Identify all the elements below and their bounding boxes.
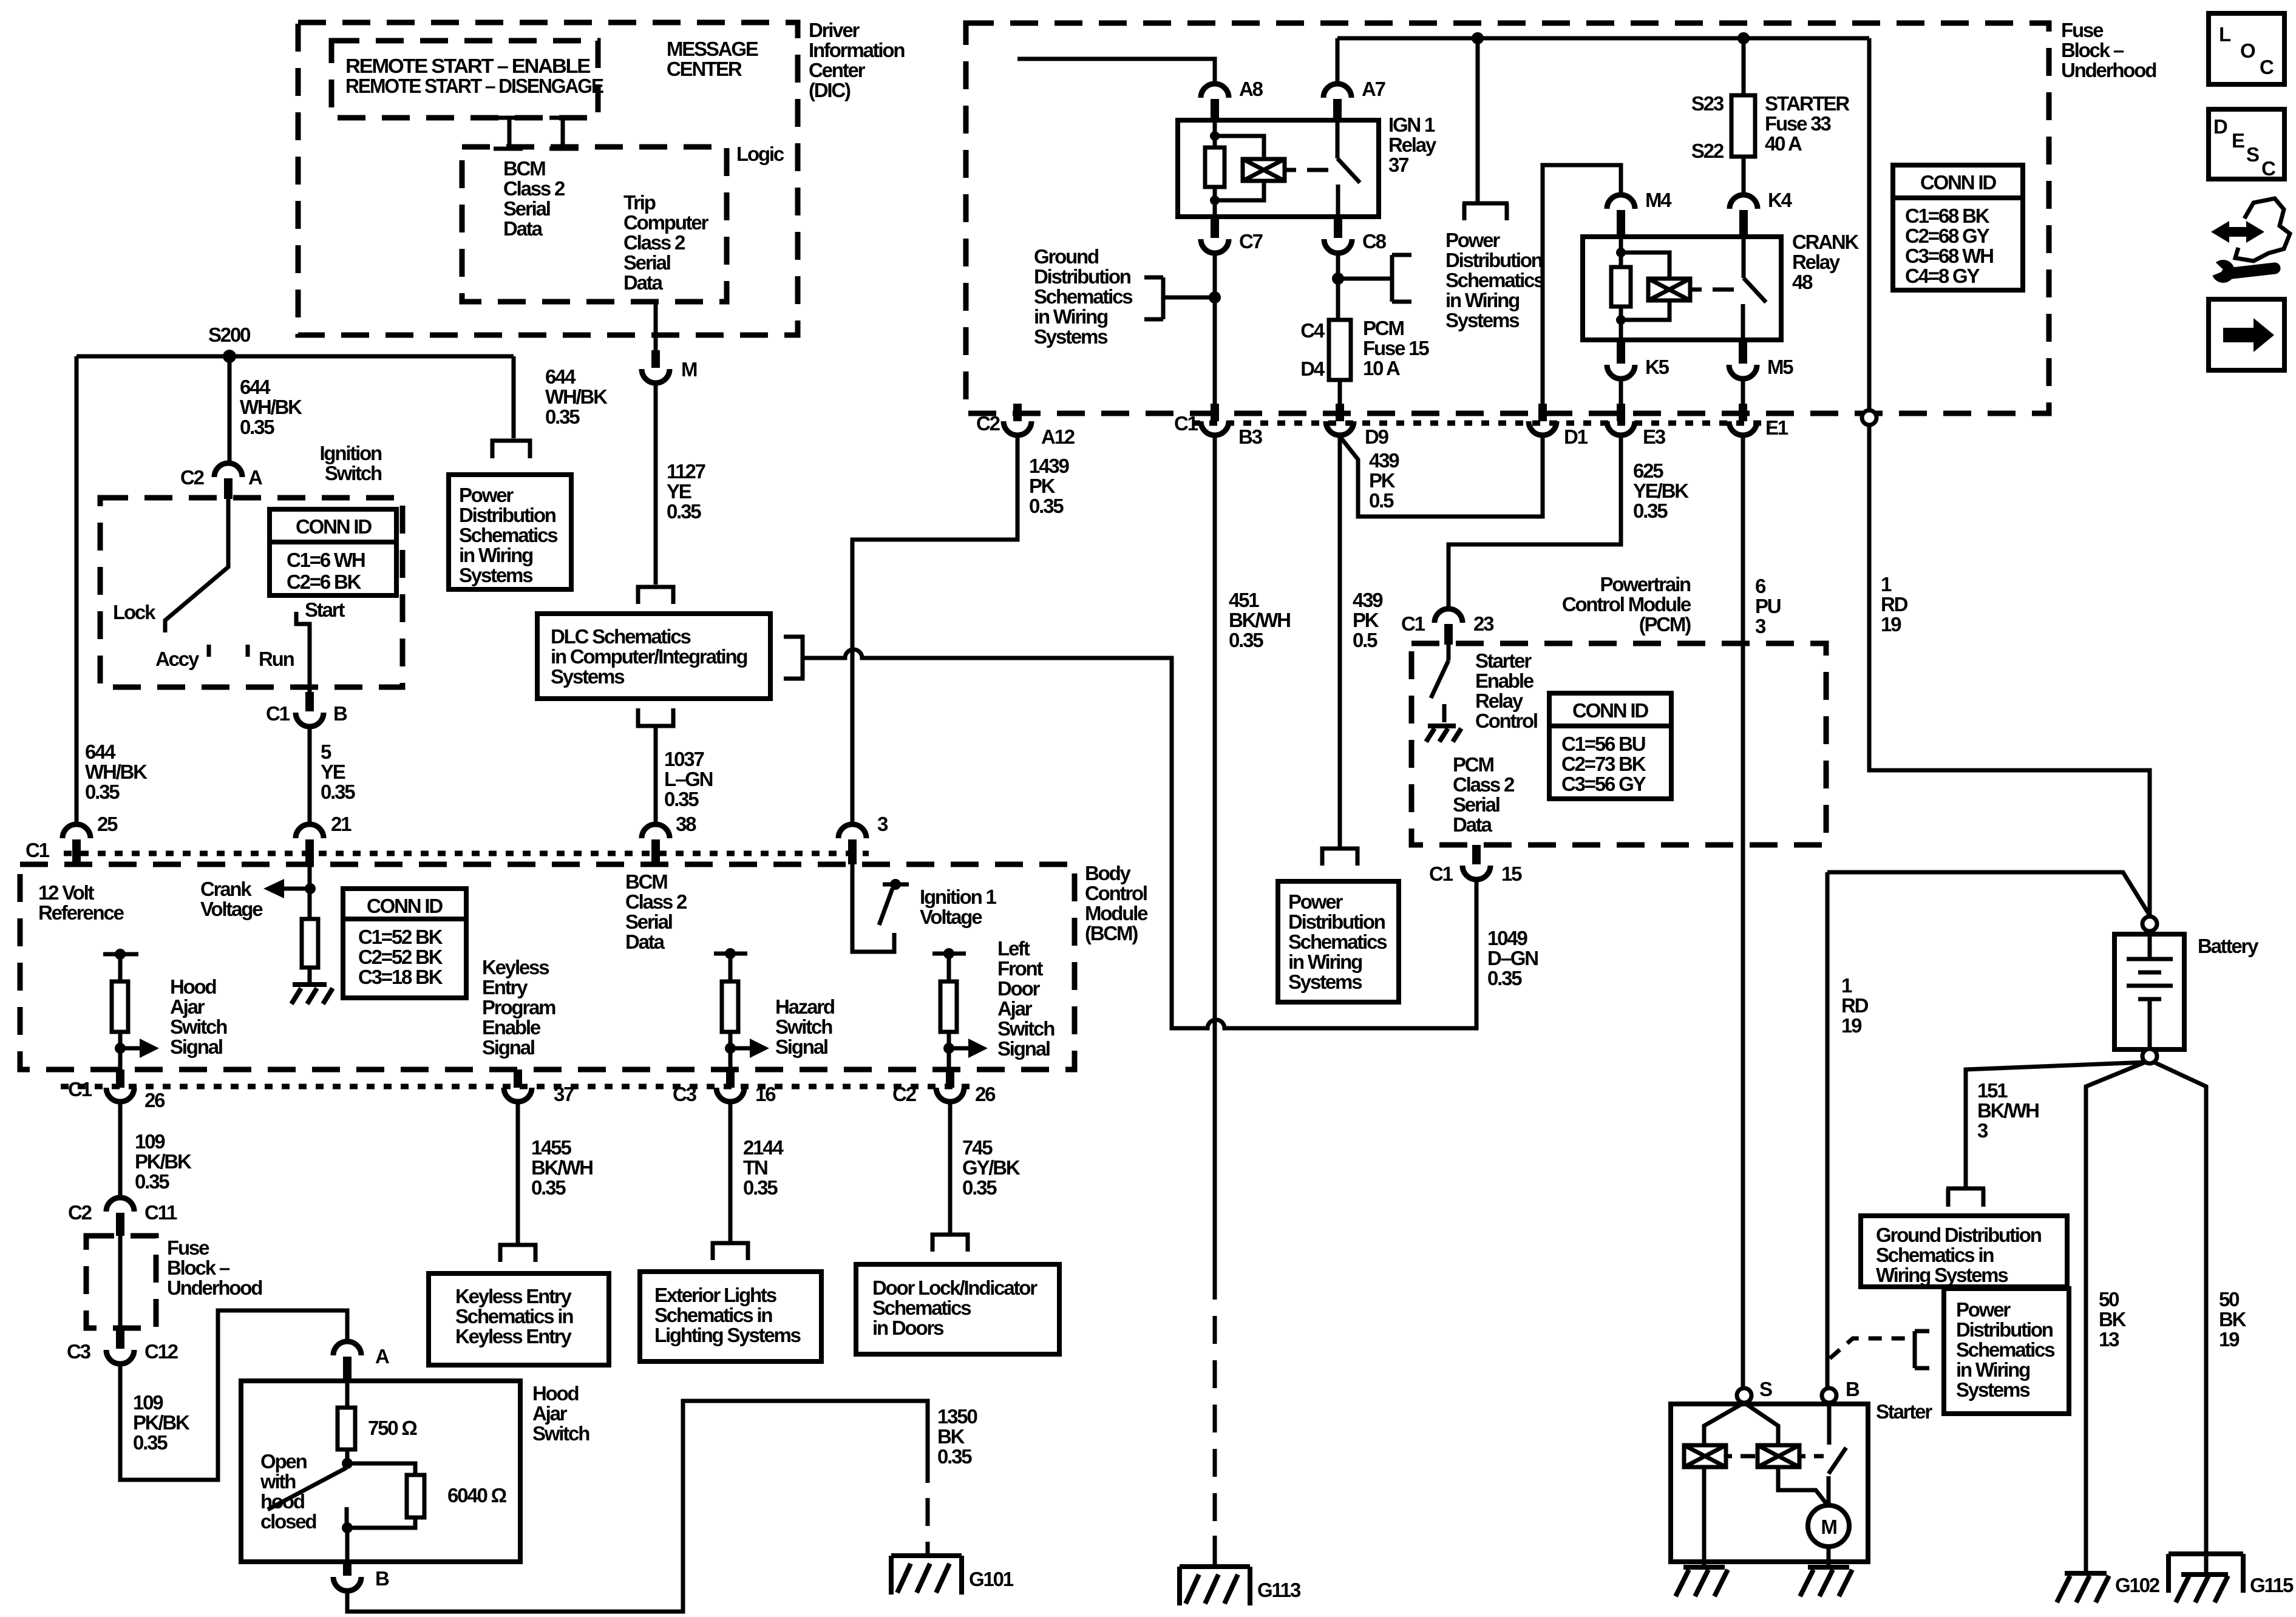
battery cell plates bbox=[2127, 934, 2173, 1049]
ground G113 bbox=[1180, 1567, 1250, 1605]
svg-text:with: with bbox=[260, 1470, 296, 1493]
wire: 1350 BK staircase to G101 bbox=[347, 1401, 928, 1612]
svg-text:Schematics: Schematics bbox=[1288, 931, 1387, 953]
svg-text:439: 439 bbox=[1353, 589, 1383, 611]
svg-text:C7: C7 bbox=[1239, 230, 1263, 253]
svg-text:PU: PU bbox=[1755, 595, 1781, 617]
switch: CRANK relay contacts bbox=[1743, 237, 1766, 340]
conn id box: fuse block bbox=[1893, 165, 2023, 290]
svg-text:Ajar: Ajar bbox=[997, 997, 1033, 1020]
svg-text:Switch: Switch bbox=[532, 1422, 589, 1445]
svg-text:Keyless: Keyless bbox=[482, 956, 549, 978]
solenoid coil 1 bbox=[1684, 1445, 1726, 1467]
svg-text:C3=68 WH: C3=68 WH bbox=[1905, 245, 1993, 267]
svg-text:K4: K4 bbox=[1768, 189, 1793, 211]
svg-text:C1=56 BU: C1=56 BU bbox=[1561, 733, 1645, 755]
svg-text:Fuse: Fuse bbox=[2061, 19, 2104, 41]
svg-text:E1: E1 bbox=[1765, 416, 1788, 439]
svg-text:S22: S22 bbox=[1691, 140, 1724, 162]
bracket: into DLC box top bbox=[638, 587, 673, 604]
svg-text:Schematics in: Schematics in bbox=[455, 1305, 573, 1327]
svg-text:Control Module: Control Module bbox=[1562, 593, 1691, 615]
svg-text:BK/WH: BK/WH bbox=[531, 1156, 593, 1179]
svg-text:BK/WH: BK/WH bbox=[1229, 609, 1290, 631]
resistor: hazard internal bbox=[722, 981, 738, 1032]
svg-text:644: 644 bbox=[85, 741, 116, 763]
ref box: Power Distribution Schematics in Wiring Systems (mid) bbox=[1278, 881, 1399, 1002]
svg-text:0.35: 0.35 bbox=[135, 1170, 169, 1193]
ref box: Exterior Lights Schematics in Lighting Systems bbox=[640, 1272, 821, 1361]
svg-text:Systems: Systems bbox=[459, 564, 532, 586]
svg-text:Ignition: Ignition bbox=[319, 442, 382, 464]
svg-text:745: 745 bbox=[962, 1136, 993, 1159]
svg-text:Center: Center bbox=[809, 59, 866, 81]
svg-text:Schematics in: Schematics in bbox=[654, 1304, 772, 1326]
svg-text:Ajar: Ajar bbox=[532, 1402, 568, 1425]
svg-text:Trip: Trip bbox=[623, 191, 656, 214]
wire: 1127 YE from Trip Computer to M bbox=[654, 302, 658, 350]
svg-text:Starter: Starter bbox=[1475, 649, 1532, 672]
svg-text:Systems: Systems bbox=[1956, 1378, 2029, 1401]
svg-text:C1: C1 bbox=[1174, 412, 1198, 435]
svg-text:C2=52 BK: C2=52 BK bbox=[358, 946, 443, 968]
connector C2 C11 bbox=[106, 1198, 134, 1212]
svg-text:Class 2: Class 2 bbox=[1453, 773, 1515, 796]
svg-text:Battery: Battery bbox=[2198, 935, 2259, 957]
svg-text:21: 21 bbox=[331, 813, 352, 835]
connector C3 C12 bbox=[116, 1329, 124, 1349]
connector C3 16 (hazard) bbox=[726, 1070, 735, 1088]
motor M bbox=[1808, 1505, 1849, 1547]
svg-text:Enable: Enable bbox=[482, 1016, 541, 1039]
wire: 625 YE/BK from E3 to PCM C1/23 bbox=[1449, 436, 1621, 609]
svg-text:Serial: Serial bbox=[1453, 793, 1500, 816]
battery positive terminal bbox=[2142, 917, 2157, 931]
wire: 5 YE down to BCM 21 bbox=[308, 727, 312, 825]
ground: PCM internal mini bbox=[1426, 726, 1461, 742]
arrow: hazard switch signal bbox=[730, 1046, 755, 1051]
relay box: IGN 1 Relay 37 bbox=[1178, 120, 1379, 217]
resistor: crank voltage pull bbox=[302, 919, 318, 968]
coil 2 to motor wire bbox=[1778, 1467, 1827, 1504]
component box: Battery bbox=[2114, 934, 2184, 1049]
svg-text:BK: BK bbox=[937, 1425, 965, 1448]
svg-text:C2=68 GY: C2=68 GY bbox=[1905, 225, 1990, 247]
svg-text:Voltage: Voltage bbox=[920, 906, 982, 928]
wire: ignition switch rotor bbox=[165, 499, 228, 632]
svg-text:in Computer/Integrating: in Computer/Integrating bbox=[551, 645, 747, 668]
svg-text:0.35: 0.35 bbox=[1229, 629, 1263, 651]
connector C1 15 bbox=[1472, 845, 1481, 864]
svg-text:BCM: BCM bbox=[503, 157, 545, 180]
wire: 151 BK/WH from battery negative bbox=[1966, 1062, 2145, 1188]
switch blade: open with hood closed bbox=[268, 1468, 347, 1510]
svg-text:0.35: 0.35 bbox=[545, 405, 580, 428]
svg-text:Signal: Signal bbox=[997, 1037, 1050, 1060]
svg-text:A12: A12 bbox=[1041, 425, 1075, 448]
svg-text:C12: C12 bbox=[144, 1340, 178, 1363]
svg-text:0.5: 0.5 bbox=[1369, 489, 1394, 512]
svg-text:Power: Power bbox=[1288, 890, 1343, 913]
ground: starter solenoid bbox=[1676, 1567, 1728, 1596]
bracket: into Power Distribution box (439 PK) bbox=[1322, 849, 1357, 866]
connector D9 bbox=[1336, 404, 1344, 421]
svg-text:15: 15 bbox=[1501, 863, 1522, 885]
svg-text:Data: Data bbox=[623, 271, 664, 294]
svg-text:CRANK: CRANK bbox=[1792, 231, 1860, 253]
svg-text:Program: Program bbox=[482, 996, 555, 1019]
svg-text:in Doors: in Doors bbox=[872, 1317, 943, 1339]
svg-text:in Wiring: in Wiring bbox=[1288, 951, 1362, 973]
contact: Start bbox=[296, 612, 310, 692]
svg-text:Fuse 33: Fuse 33 bbox=[1765, 112, 1831, 135]
svg-text:0.35: 0.35 bbox=[962, 1176, 997, 1199]
wire: 451 dashed section to G113 bbox=[1213, 1272, 1217, 1536]
svg-text:B: B bbox=[333, 702, 347, 725]
dashed actuator link CRANK bbox=[1690, 288, 1734, 292]
svg-text:38: 38 bbox=[676, 813, 696, 835]
arrow: crank voltage (points left) bbox=[280, 887, 310, 891]
svg-text:Entry: Entry bbox=[482, 976, 528, 998]
svg-text:C2=6 BK: C2=6 BK bbox=[287, 571, 362, 593]
connector D1 bbox=[1538, 404, 1547, 421]
bracket: into Ground Distribution box bbox=[1946, 1188, 1985, 1207]
bracket: DLC box bottom bbox=[638, 708, 673, 726]
svg-text:Data: Data bbox=[503, 217, 543, 240]
node S200 bbox=[223, 350, 236, 363]
svg-text:Schematics in: Schematics in bbox=[1876, 1244, 1994, 1266]
svg-text:WH/BK: WH/BK bbox=[85, 761, 148, 783]
svg-text:RD: RD bbox=[1841, 994, 1869, 1017]
svg-text:Lock: Lock bbox=[113, 601, 156, 623]
svg-text:Open: Open bbox=[260, 1450, 307, 1473]
svg-text:0.35: 0.35 bbox=[1029, 495, 1064, 517]
svg-text:PK: PK bbox=[1029, 475, 1056, 497]
svg-text:Reference: Reference bbox=[38, 901, 124, 924]
svg-text:Serial: Serial bbox=[623, 251, 670, 274]
wire: 2144 TN down bbox=[729, 1103, 733, 1242]
wire: message center to logic connector left bbox=[508, 117, 512, 150]
svg-text:WH/BK: WH/BK bbox=[545, 385, 608, 408]
svg-text:750 Ω: 750 Ω bbox=[368, 1417, 417, 1439]
svg-text:0.35: 0.35 bbox=[743, 1176, 778, 1199]
svg-text:C2: C2 bbox=[892, 1083, 917, 1105]
svg-text:23: 23 bbox=[1473, 612, 1494, 635]
svg-text:O: O bbox=[2240, 39, 2255, 62]
svg-text:D: D bbox=[2213, 115, 2227, 138]
svg-text:Control: Control bbox=[1085, 882, 1147, 904]
svg-text:0.35: 0.35 bbox=[133, 1431, 168, 1454]
module box: Ignition Switch dashed bbox=[100, 498, 402, 687]
svg-text:Block –: Block – bbox=[2061, 39, 2124, 61]
svg-text:Serial: Serial bbox=[503, 197, 550, 220]
svg-text:CENTER: CENTER bbox=[667, 58, 742, 80]
svg-text:Front: Front bbox=[997, 957, 1044, 980]
coil: CRANK relay winding bbox=[1648, 279, 1690, 300]
svg-text:K5: K5 bbox=[1645, 356, 1669, 378]
svg-text:0.35: 0.35 bbox=[321, 781, 355, 803]
svg-text:C1=52 BK: C1=52 BK bbox=[358, 926, 443, 948]
resistor 750 ohm bbox=[345, 1382, 350, 1408]
svg-text:G115: G115 bbox=[2250, 1574, 2294, 1596]
module box: MESSAGE CENTER dashed bbox=[331, 41, 598, 118]
connector A7 bbox=[1323, 84, 1351, 98]
grommet circle at fuse block boundary bbox=[1862, 410, 1877, 425]
wire: fuse to K4 bbox=[1742, 157, 1746, 195]
svg-text:in Wiring: in Wiring bbox=[1034, 305, 1107, 328]
svg-text:S: S bbox=[1759, 1378, 1772, 1400]
svg-text:C8: C8 bbox=[1362, 230, 1387, 253]
svg-text:Driver: Driver bbox=[809, 19, 860, 41]
svg-text:in Wiring: in Wiring bbox=[1956, 1358, 2029, 1381]
svg-text:Signal: Signal bbox=[170, 1036, 222, 1058]
wire: 1037 L-GN down to BCM 38 bbox=[654, 726, 658, 825]
wire: 1 RD 19 lower branch bbox=[1827, 872, 2150, 915]
svg-text:1455: 1455 bbox=[531, 1136, 571, 1159]
svg-text:109: 109 bbox=[133, 1391, 163, 1414]
svg-text:C1: C1 bbox=[25, 839, 50, 861]
connector K4 bbox=[1730, 195, 1758, 209]
dashed actuator link starter bbox=[1726, 1454, 1824, 1459]
connector E3 bbox=[1617, 404, 1625, 421]
svg-text:Signal: Signal bbox=[482, 1036, 534, 1059]
wire: 109 PK/BK down bbox=[118, 1103, 123, 1196]
svg-text:CONN ID: CONN ID bbox=[1572, 699, 1648, 722]
svg-text:Hazard: Hazard bbox=[775, 995, 834, 1018]
svg-text:1037: 1037 bbox=[664, 748, 704, 770]
module box: Fuse Block - Underhood small dashed bbox=[86, 1236, 156, 1328]
wire: K5 to E3 bbox=[1619, 379, 1623, 404]
ref box: Ground Distribution Schematics in Wiring Systems bbox=[1861, 1216, 2067, 1287]
connector E1 bbox=[1739, 404, 1747, 421]
svg-text:C: C bbox=[2260, 56, 2274, 78]
wire+bracket: power distribution reference (C8) bbox=[1338, 255, 1411, 302]
svg-text:Distribution: Distribution bbox=[459, 504, 556, 526]
wire: battery feed bus bbox=[1337, 36, 1869, 41]
bracket: power distribution reference bbox=[492, 441, 530, 458]
ground: BCM internal bbox=[291, 985, 333, 1004]
svg-text:0.35: 0.35 bbox=[85, 781, 120, 803]
connector C1 23 bbox=[1435, 609, 1462, 623]
svg-text:CONN ID: CONN ID bbox=[1920, 171, 1996, 194]
svg-text:1439: 1439 bbox=[1029, 455, 1069, 477]
svg-text:Fuse 15: Fuse 15 bbox=[1363, 337, 1429, 359]
ref box: Door Lock/Indicator Schematics in Doors bbox=[856, 1264, 1059, 1354]
svg-text:Run: Run bbox=[259, 648, 294, 670]
coil: IGN1 relay winding bbox=[1243, 159, 1285, 181]
svg-text:YE: YE bbox=[321, 761, 345, 783]
svg-text:C2: C2 bbox=[68, 1201, 92, 1224]
svg-text:1350: 1350 bbox=[937, 1405, 977, 1428]
svg-text:Door: Door bbox=[997, 977, 1041, 1000]
svg-text:BK: BK bbox=[2219, 1308, 2247, 1331]
svg-text:Switch: Switch bbox=[170, 1015, 227, 1038]
wire: C8 down bbox=[1336, 254, 1340, 320]
svg-text:19: 19 bbox=[1841, 1014, 1862, 1037]
svg-text:C: C bbox=[2261, 157, 2275, 180]
svg-text:0.5: 0.5 bbox=[1353, 629, 1377, 651]
svg-text:in Wiring: in Wiring bbox=[1445, 289, 1519, 311]
svg-text:Left: Left bbox=[997, 937, 1030, 960]
svg-text:3: 3 bbox=[1977, 1119, 1988, 1142]
svg-text:451: 451 bbox=[1229, 589, 1259, 611]
wire: S200 down to ignition switch C2/A bbox=[228, 356, 232, 463]
svg-text:M: M bbox=[1821, 1516, 1836, 1538]
wire+bracket: power distribution drop from bus bbox=[1462, 38, 1509, 220]
switch: Ignition 1 Voltage bbox=[852, 864, 894, 952]
svg-text:G113: G113 bbox=[1257, 1579, 1301, 1601]
coil 1 to ground bbox=[1702, 1467, 1707, 1567]
resistor: left front door internal bbox=[940, 981, 957, 1032]
relay coil branch wiring bbox=[1213, 120, 1217, 217]
svg-text:Relay: Relay bbox=[1792, 251, 1841, 273]
svg-text:C11: C11 bbox=[144, 1201, 177, 1224]
icon box: DESC bbox=[2209, 109, 2284, 179]
svg-text:Control: Control bbox=[1475, 710, 1537, 732]
svg-text:G102: G102 bbox=[2115, 1574, 2160, 1596]
module box: Fuse Block - Underhood dashed bbox=[966, 23, 2049, 413]
svg-text:M: M bbox=[681, 358, 697, 381]
bracket: into Keyless Entry box bbox=[500, 1245, 535, 1262]
component box: Starter bbox=[1671, 1404, 1868, 1562]
wire: hood ajar internal with junction bar bbox=[103, 954, 138, 981]
svg-text:C3=56 GY: C3=56 GY bbox=[1561, 773, 1646, 795]
svg-text:M5: M5 bbox=[1767, 356, 1793, 378]
svg-text:PK/BK: PK/BK bbox=[133, 1411, 190, 1434]
terminal B bbox=[1822, 1388, 1836, 1403]
ground G102 bbox=[2057, 1573, 2109, 1602]
svg-text:C1=6 WH: C1=6 WH bbox=[287, 549, 365, 571]
connector A (hood ajar switch) bbox=[333, 1341, 361, 1355]
wire: 451 BK/WH from B3 down bbox=[1213, 436, 1217, 1272]
svg-text:B: B bbox=[375, 1567, 389, 1590]
svg-text:BCM: BCM bbox=[625, 870, 667, 893]
svg-text:C1=68 BK: C1=68 BK bbox=[1905, 205, 1990, 227]
svg-text:Exterior Lights: Exterior Lights bbox=[654, 1284, 776, 1306]
svg-text:DLC Schematics: DLC Schematics bbox=[551, 625, 690, 648]
svg-text:37: 37 bbox=[554, 1083, 574, 1105]
wire: 50 BK 19 from battery negative bbox=[2153, 1062, 2206, 1575]
wire: 644 right branch down to power dist bracket bbox=[512, 356, 516, 438]
svg-text:Data: Data bbox=[625, 931, 665, 953]
dotted connector line BCM bottom bbox=[61, 1084, 977, 1090]
svg-text:Keyless Entry: Keyless Entry bbox=[455, 1325, 572, 1347]
svg-text:25: 25 bbox=[97, 813, 118, 835]
svg-text:Systems: Systems bbox=[1034, 325, 1107, 348]
switch: starter enable relay control bbox=[1431, 645, 1449, 722]
svg-text:Distribution: Distribution bbox=[1288, 910, 1385, 933]
svg-text:Wiring Systems: Wiring Systems bbox=[1876, 1264, 2008, 1286]
svg-text:13: 13 bbox=[2099, 1328, 2119, 1351]
svg-text:L: L bbox=[2219, 23, 2231, 46]
svg-text:Logic: Logic bbox=[736, 143, 784, 165]
ref box: DLC Schematics in Computer/Integrating Systems bbox=[537, 614, 770, 699]
svg-text:50: 50 bbox=[2219, 1288, 2239, 1310]
connector C2 26 (left front door) bbox=[946, 1070, 954, 1088]
svg-text:C3=18 BK: C3=18 BK bbox=[358, 966, 443, 988]
wire: 439 PK from D9 diagonal to D1 bbox=[1340, 436, 1543, 517]
svg-text:Signal: Signal bbox=[775, 1036, 827, 1058]
wire: message center to logic connector right bbox=[561, 117, 565, 150]
svg-text:Door Lock/Indicator: Door Lock/Indicator bbox=[872, 1276, 1038, 1299]
connector C1 B3 bbox=[1211, 404, 1219, 421]
wire: S200 horizontal bus 644 WH/BK bbox=[76, 354, 514, 359]
svg-text:644: 644 bbox=[240, 376, 271, 398]
svg-text:Start: Start bbox=[305, 598, 345, 621]
svg-text:GY/BK: GY/BK bbox=[962, 1156, 1021, 1179]
svg-text:109: 109 bbox=[135, 1130, 165, 1153]
arrow: left front door ajar switch signal bbox=[949, 1046, 973, 1051]
svg-text:2144: 2144 bbox=[743, 1136, 784, 1159]
svg-text:Starter: Starter bbox=[1876, 1400, 1932, 1423]
svg-text:C1: C1 bbox=[1429, 863, 1453, 885]
svg-text:Distribution: Distribution bbox=[1034, 265, 1131, 288]
svg-text:Class 2: Class 2 bbox=[623, 231, 685, 254]
conn id box: BCM bbox=[343, 889, 466, 998]
node: bus to power distribution bbox=[1472, 32, 1484, 44]
svg-text:C3: C3 bbox=[673, 1083, 697, 1105]
connector 37 (keyless) bbox=[514, 1070, 522, 1088]
dotted connector line (PCM C1) bbox=[1192, 421, 1771, 426]
resistor: IGN1 relay internal bbox=[1205, 147, 1224, 187]
connector 21 bbox=[296, 824, 324, 838]
wire: M5 to E1 bbox=[1741, 379, 1745, 404]
svg-text:19: 19 bbox=[2219, 1328, 2240, 1351]
svg-text:Schematics: Schematics bbox=[1445, 269, 1544, 291]
svg-text:STARTER: STARTER bbox=[1765, 92, 1850, 115]
connector 3 bbox=[838, 824, 866, 838]
svg-text:A8: A8 bbox=[1239, 78, 1263, 100]
connector M4 bbox=[1607, 195, 1635, 209]
svg-text:Body: Body bbox=[1085, 862, 1132, 884]
svg-text:RD: RD bbox=[1881, 593, 1908, 615]
switch: starter solenoid contacts bbox=[1829, 1403, 1846, 1505]
svg-text:644: 644 bbox=[545, 365, 576, 388]
svg-text:0.35: 0.35 bbox=[1633, 500, 1668, 522]
conn id box: ignition switch bbox=[270, 509, 396, 595]
svg-text:6040 Ω: 6040 Ω bbox=[447, 1484, 507, 1507]
svg-text:6: 6 bbox=[1755, 575, 1766, 597]
svg-text:TN: TN bbox=[743, 1156, 767, 1179]
svg-text:1049: 1049 bbox=[1487, 927, 1527, 949]
connector C1 B (ignition switch bottom) bbox=[305, 692, 314, 711]
svg-text:Crank: Crank bbox=[200, 878, 252, 900]
svg-text:16: 16 bbox=[755, 1083, 776, 1105]
svg-text:151: 151 bbox=[1977, 1079, 2008, 1102]
svg-text:C2: C2 bbox=[180, 466, 205, 489]
svg-text:YE/BK: YE/BK bbox=[1633, 480, 1689, 502]
arrow: hood ajar switch signal (points right) bbox=[120, 1046, 144, 1051]
svg-text:E: E bbox=[2232, 129, 2244, 152]
svg-text:Ground: Ground bbox=[1034, 245, 1098, 268]
resistor: hood ajar internal bbox=[112, 981, 128, 1032]
svg-text:BK/WH: BK/WH bbox=[1977, 1099, 2039, 1122]
ref box: Power Distribution Schematics in Wiring Systems (starter) bbox=[1944, 1289, 2069, 1414]
svg-text:439: 439 bbox=[1369, 449, 1399, 472]
component box: Hood Ajar Switch bbox=[241, 1381, 520, 1562]
icon box: LOC bbox=[2209, 13, 2284, 84]
svg-text:0.35: 0.35 bbox=[1487, 967, 1522, 989]
connector B (hood ajar switch) bbox=[343, 1562, 352, 1576]
wire+bracket: ground distribution reference bbox=[1144, 277, 1215, 319]
svg-text:hood: hood bbox=[260, 1490, 304, 1513]
icon box: right arrow bbox=[2209, 299, 2284, 370]
connector C7 bbox=[1211, 217, 1219, 238]
svg-text:Switch: Switch bbox=[325, 462, 382, 484]
svg-text:S: S bbox=[2246, 143, 2259, 166]
svg-text:Keyless Entry: Keyless Entry bbox=[455, 1285, 572, 1307]
svg-text:Power: Power bbox=[459, 484, 514, 506]
